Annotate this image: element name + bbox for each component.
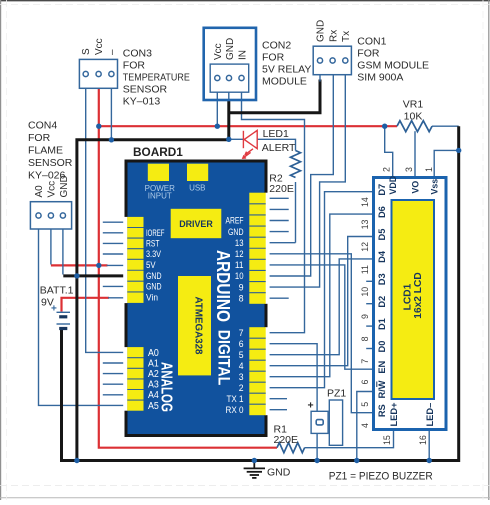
svg-text:5V RELAY: 5V RELAY — [262, 64, 311, 76]
svg-text:5: 5 — [360, 402, 370, 407]
svg-text:Rx: Rx — [329, 30, 340, 42]
svg-text:IN: IN — [238, 50, 249, 60]
wire: CON1 Tx to Arduino pin 9 — [266, 75, 346, 287]
svg-text:TEMPERATURE: TEMPERATURE — [123, 72, 190, 84]
wire: Arduino pin 11 to LCD EN — [266, 265, 373, 369]
Arduino left upper pin header — [127, 217, 143, 303]
LCD module LCD1 — [374, 178, 447, 430]
svg-text:7: 7 — [360, 359, 370, 364]
svg-text:SENSOR: SENSOR — [28, 157, 73, 169]
svg-text:16: 16 — [418, 435, 428, 445]
wire: LCD R/W to ground line — [357, 392, 373, 461]
svg-text:11: 11 — [235, 260, 244, 270]
svg-text:EN: EN — [377, 360, 387, 373]
wire: LED1 cathode to black GND wire — [229, 138, 244, 140]
svg-text:12: 12 — [235, 249, 244, 259]
wire: CON2 IN to Arduino pin 7 — [242, 92, 305, 333]
svg-text:CON3: CON3 — [123, 48, 152, 60]
Arduino right upper pin labels — [226, 216, 244, 304]
svg-text:USB: USB — [189, 183, 205, 192]
Arduino analog pin header — [127, 347, 143, 411]
svg-text:Vss: Vss — [430, 179, 440, 195]
wire: stub row top-2 right — [266, 208, 289, 210]
svg-text:FOR: FOR — [123, 60, 146, 72]
wire: PZ1 minus to ground line — [316, 433, 318, 460]
svg-text:TX 1: TX 1 — [227, 394, 244, 404]
svg-text:A0: A0 — [148, 348, 159, 359]
svg-text:220E: 220E — [274, 434, 299, 446]
wire: A4 stub — [103, 394, 127, 396]
connector CON2 — [204, 28, 256, 100]
microcontroller ATMEGA328 — [178, 276, 211, 375]
svg-text:13: 13 — [360, 220, 370, 230]
svg-text:9: 9 — [360, 314, 370, 319]
label CON3 block — [123, 48, 190, 108]
wire: Arduino pin 4 to LCD D5 — [266, 237, 373, 366]
svg-text:D3: D3 — [377, 273, 387, 285]
svg-text:–: – — [107, 49, 118, 55]
svg-text:2: 2 — [381, 167, 391, 172]
Arduino board BOARD1 body — [123, 161, 269, 436]
svg-text:12: 12 — [360, 242, 370, 252]
wire: right GND stub — [266, 231, 289, 233]
wire: LCD D2 stub — [366, 303, 372, 305]
svg-text:ANALOG: ANALOG — [158, 362, 175, 412]
wire: Arduino pin 13 to R2 — [266, 242, 296, 244]
wire: pin 8 stub — [266, 297, 289, 299]
svg-text:D6: D6 — [377, 206, 387, 218]
svg-text:LED–: LED– — [425, 403, 435, 427]
wire: LCD Vss to ground bus — [434, 150, 459, 176]
svg-text:9: 9 — [239, 282, 244, 292]
wire: red +5V rail — [99, 125, 397, 127]
svg-text:VDD: VDD — [388, 176, 398, 195]
wire: 3.3V stub — [103, 253, 127, 255]
svg-text:5: 5 — [239, 350, 244, 360]
svg-text:3: 3 — [239, 372, 244, 382]
label CON4 block — [28, 120, 73, 182]
LCD bottom pin labels LED+ LED- — [389, 402, 435, 427]
svg-text:GND: GND — [146, 271, 162, 281]
wire: Arduino pin 12 to LCD RS — [266, 254, 373, 413]
wire: GND2 stub — [103, 285, 127, 287]
svg-text:FOR: FOR — [262, 52, 285, 64]
svg-text:6: 6 — [360, 380, 370, 385]
svg-text:MODULE: MODULE — [262, 76, 307, 88]
wire: A2 stub — [103, 373, 127, 375]
svg-text:CON4: CON4 — [28, 120, 57, 132]
svg-text:KY–013: KY–013 — [123, 96, 161, 108]
svg-text:14: 14 — [360, 197, 370, 207]
wire: CON2 GND blue stub — [228, 92, 230, 101]
svg-text:D7: D7 — [377, 184, 387, 196]
svg-text:3.3V: 3.3V — [146, 249, 162, 259]
svg-text:PZ1 = PIEZO BUZZER: PZ1 = PIEZO BUZZER — [329, 471, 433, 483]
wire: black GND branch to Arduino GND pin — [63, 274, 126, 277]
svg-text:RST: RST — [146, 239, 160, 249]
svg-text:GND: GND — [228, 227, 244, 237]
svg-text:FOR: FOR — [28, 132, 51, 144]
svg-text:6: 6 — [239, 339, 244, 349]
svg-text:A3: A3 — [148, 380, 159, 391]
ground symbol — [244, 461, 265, 478]
wire: LCD LED- to ground line — [428, 431, 430, 461]
label CON1 block — [357, 36, 429, 84]
svg-text:CON1: CON1 — [357, 36, 386, 48]
wire: R1 to LCD LED+ — [305, 431, 394, 448]
svg-text:4: 4 — [239, 361, 244, 371]
wire: LED1 anode to R2 top — [257, 139, 295, 150]
wire: VR1 right arm to ground bus — [432, 125, 459, 127]
wire: LCD D3 stub — [366, 280, 372, 282]
label POWER INPUT — [145, 184, 175, 201]
wire: VR1 left arm to LCD VDD — [385, 126, 393, 176]
wire: RST stub — [103, 242, 127, 244]
wire: CON4 A0 to Arduino A5 — [39, 229, 127, 405]
svg-text:A0: A0 — [34, 185, 45, 198]
wire: LCD D0 stub — [366, 348, 372, 350]
svg-text:A1: A1 — [148, 358, 159, 369]
svg-text:SIM 900A: SIM 900A — [357, 72, 403, 84]
svg-text:Vcc: Vcc — [94, 38, 105, 55]
svg-text:LED+: LED+ — [389, 402, 399, 427]
svg-text:GND: GND — [316, 20, 327, 42]
svg-text:+: + — [308, 400, 314, 412]
Arduino right upper pin header — [249, 193, 265, 304]
svg-text:D1: D1 — [377, 318, 387, 330]
wire: CON3 minus down to GND line — [110, 88, 112, 140]
wire: black CON2 GND down-left-down — [77, 100, 229, 461]
wire: R2 bottom to pin 13 — [295, 182, 297, 243]
svg-text:DIGITAL: DIGITAL — [215, 330, 233, 386]
label CON2 block — [262, 40, 311, 88]
svg-text:RS: RS — [377, 404, 387, 417]
svg-text:S: S — [81, 48, 92, 55]
wire: VR1 wiper to LCD VO — [414, 131, 416, 176]
svg-text:8: 8 — [360, 336, 370, 341]
svg-text:1: 1 — [424, 167, 434, 172]
driver block — [171, 209, 222, 238]
svg-text:D0: D0 — [377, 341, 387, 353]
svg-text:SENSOR: SENSOR — [123, 84, 168, 96]
Arduino left pin labels — [146, 228, 165, 303]
svg-text:R/W: R/W — [377, 380, 387, 398]
svg-text:RX 0: RX 0 — [226, 405, 244, 415]
wire: left top cell stub — [103, 221, 127, 223]
svg-text:4: 4 — [360, 423, 370, 428]
wire: RX 0 stub — [266, 409, 287, 411]
wire: Arduino pin 6 down to PZ1 plus — [266, 344, 317, 412]
svg-text:ALERT: ALERT — [262, 142, 296, 154]
wire: red Vin line from battery plus — [62, 298, 110, 312]
svg-text:DRIVER: DRIVER — [179, 219, 213, 229]
svg-text:LCD1: LCD1 — [403, 283, 414, 310]
svg-text:13: 13 — [235, 238, 244, 248]
svg-text:BATT.1: BATT.1 — [40, 285, 74, 297]
piezo buzzer PZ1 — [308, 388, 347, 446]
wire: black bottom ground line and right bus — [62, 126, 459, 460]
resistor R1 220E — [277, 443, 305, 453]
svg-text:ATMEGA328: ATMEGA328 — [193, 297, 204, 355]
wire: blue tail into 5V pin — [107, 264, 127, 266]
svg-text:PZ1: PZ1 — [327, 388, 346, 400]
wire: IOREF stub — [103, 232, 127, 234]
wire: red 5V line to Arduino 5V pin — [51, 264, 108, 266]
svg-text:IOREF: IOREF — [146, 228, 165, 238]
svg-text:10: 10 — [235, 271, 244, 281]
svg-text:Vcc: Vcc — [47, 181, 58, 198]
svg-text:AREF: AREF — [226, 216, 244, 226]
LCD data pin labels — [377, 184, 387, 417]
svg-text:D4: D4 — [377, 250, 387, 263]
svg-text:11: 11 — [360, 265, 370, 274]
svg-text:220E: 220E — [269, 183, 294, 195]
svg-text:FLAME: FLAME — [28, 145, 63, 157]
Arduino analog pin labels — [148, 348, 159, 412]
resistor R2 220E — [291, 151, 301, 178]
wire: CON2 Vcc down to rail — [216, 92, 218, 126]
svg-text:2: 2 — [239, 383, 244, 393]
svg-text:8: 8 — [239, 293, 244, 303]
svg-text:15: 15 — [382, 435, 392, 445]
R/W overline — [376, 382, 378, 388]
svg-text:GSM MODULE: GSM MODULE — [357, 60, 429, 72]
svg-text:A5: A5 — [148, 401, 159, 412]
svg-text:10: 10 — [360, 287, 370, 297]
svg-text:GND: GND — [146, 282, 162, 292]
wire: LCD D1 stub — [366, 325, 372, 327]
svg-text:A2: A2 — [148, 369, 159, 380]
svg-text:Vcc: Vcc — [213, 43, 224, 60]
wire: Arduino pin 2 to LCD D7 — [266, 192, 373, 388]
svg-text:5V: 5V — [146, 260, 156, 270]
LCD top pin labels — [388, 176, 439, 195]
svg-text:FOR: FOR — [357, 48, 380, 60]
connector CON1 — [313, 46, 351, 74]
svg-text:GND: GND — [267, 467, 291, 479]
svg-text:ARDUINO: ARDUINO — [213, 250, 233, 322]
svg-text:D5: D5 — [377, 229, 387, 241]
svg-text:GND: GND — [225, 38, 236, 60]
LCD bottom pin numbers 15 16 — [382, 435, 428, 445]
svg-text:Tx: Tx — [341, 31, 352, 42]
svg-text:VO: VO — [410, 181, 420, 194]
potentiometer VR1 10K — [397, 121, 432, 132]
wire: black CON1 GND link — [229, 80, 320, 113]
wire: red CON3 Vcc vertical down to R1 feed line — [99, 88, 277, 447]
wire: CON4 Vcc down to 5V line — [50, 229, 52, 265]
wire: Arduino pin 5 to LCD D4 — [266, 259, 373, 355]
svg-text:VR1: VR1 — [403, 99, 424, 111]
Arduino right lower pin header — [249, 327, 265, 415]
connector CON3 — [79, 59, 117, 88]
wire: TX 1 stub — [266, 398, 287, 400]
wire: A3 stub — [103, 383, 127, 385]
svg-text:CON2: CON2 — [262, 40, 291, 52]
LCD pin numbers left — [360, 197, 370, 428]
svg-text:D2: D2 — [377, 296, 387, 308]
svg-text:+: + — [51, 304, 57, 315]
LED LED1 — [243, 130, 257, 158]
svg-text:16x2 LCD: 16x2 LCD — [413, 272, 424, 318]
wire: CON4 GND down to GND branch — [62, 229, 64, 275]
wire: stub row top-1 right — [266, 197, 289, 199]
wire: AREF stub — [266, 220, 289, 222]
wire: A1 stub — [103, 362, 127, 364]
svg-text:BOARD1: BOARD1 — [133, 145, 183, 159]
wire: CON1 Rx to Arduino pin 10 — [266, 75, 334, 276]
power input block — [148, 164, 169, 181]
USB block — [187, 164, 208, 181]
svg-text:3: 3 — [404, 167, 414, 172]
wire: Arduino pin 3 to LCD D6 — [266, 214, 373, 377]
svg-text:LED1: LED1 — [263, 128, 289, 140]
wire: CON3 S to Arduino A0 — [86, 88, 127, 352]
svg-text:KY–026: KY–026 — [28, 170, 66, 182]
Arduino right lower pin labels — [226, 328, 244, 415]
svg-text:Vin: Vin — [146, 293, 158, 303]
wire: blue tail into Vin pin — [108, 297, 127, 299]
svg-text:10K: 10K — [404, 111, 423, 123]
LCD top pin numbers 2 3 1 — [381, 167, 434, 172]
svg-text:A4: A4 — [148, 390, 159, 401]
battery BATT.1 9V — [40, 285, 74, 329]
svg-text:7: 7 — [239, 328, 244, 338]
svg-text:INPUT: INPUT — [148, 192, 172, 201]
connector CON4 — [30, 202, 71, 229]
wire: blue stub CON1 GND pin — [319, 75, 321, 82]
